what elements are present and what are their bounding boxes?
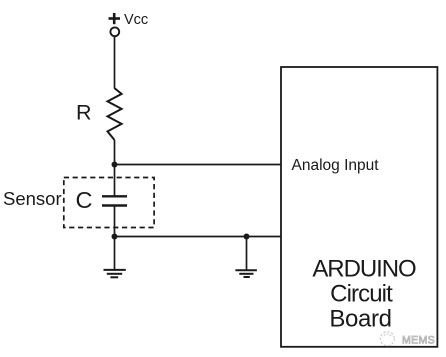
wire capacitor bottom plate to node B — [114, 206, 116, 237]
wire node C down to ground 2 — [246, 237, 248, 271]
svg-text:ARDUINO: ARDUINO — [312, 256, 416, 283]
svg-text:Vcc: Vcc — [124, 12, 148, 28]
Arduino board box U1 — [281, 67, 437, 347]
resistor R (zigzag) — [108, 88, 122, 140]
sensor enclosure (dashed box) — [64, 178, 154, 228]
wire node B down to ground 1 — [114, 237, 116, 270]
capacitor C (two plates) — [102, 196, 127, 205]
wire node A to capacitor top plate — [114, 165, 116, 197]
svg-text:C: C — [76, 187, 93, 213]
wire resistor bottom to node A — [114, 140, 116, 165]
wire Vcc terminal to resistor top — [114, 36, 116, 88]
node C (junction on bottom rail for ground 2) — [244, 234, 250, 240]
node A (junction resistor/capacitor/analog input) — [112, 162, 118, 168]
svg-text:R: R — [76, 101, 92, 125]
svg-text:Board: Board — [329, 306, 391, 333]
node B (junction capacitor/ground/bottom wire) — [112, 234, 118, 240]
svg-text:Analog Input: Analog Input — [292, 157, 380, 174]
wire analog input to Arduino box — [115, 164, 282, 166]
svg-text:MEMS: MEMS — [402, 335, 435, 347]
svg-text:Circuit: Circuit — [330, 281, 393, 308]
svg-text:Sensor: Sensor — [3, 188, 62, 209]
ground 2 (earth symbol, middle) — [235, 270, 257, 277]
power +Vcc symbol (plus sign) — [109, 13, 121, 24]
watermark MEMS logo icon — [380, 332, 394, 346]
ground 1 (earth symbol, left) — [104, 270, 126, 277]
wire bottom rail to Arduino box — [115, 236, 282, 238]
terminal circle (Vcc node) — [110, 27, 119, 36]
